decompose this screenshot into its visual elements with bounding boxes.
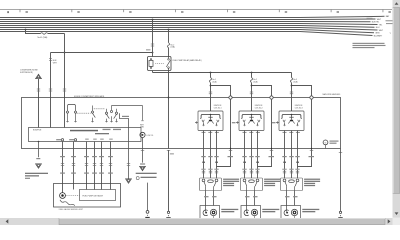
svg-text:(15A): (15A): [293, 80, 298, 83]
svg-text:COIL No.2: COIL No.2: [255, 107, 263, 109]
svg-text:No.41 (50A): No.41 (50A): [38, 36, 48, 39]
svg-text:COIL No.1: COIL No.1: [214, 107, 222, 109]
svg-text:BLK/YEL: BLK/YEL: [372, 22, 380, 24]
svg-text:SUPPRESSOR): SUPPRESSOR): [20, 72, 33, 74]
svg-text:BLU: BLU: [376, 27, 380, 29]
svg-text:G: G: [325, 143, 327, 145]
svg-text:FUEL PUMP UNIT ASSY: FUEL PUMP UNIT ASSY: [83, 194, 104, 197]
svg-text:YEL: YEL: [379, 24, 383, 26]
svg-text:(15A): (15A): [212, 80, 217, 83]
svg-text:(15A): (15A): [253, 80, 258, 83]
svg-text:MAIN WIRE HARNESS: MAIN WIRE HARNESS: [323, 93, 342, 96]
svg-text:*1: *1: [390, 33, 392, 35]
svg-text:FUEL GAUGE SENDING UNIT: FUEL GAUGE SENDING UNIT: [59, 208, 84, 211]
svg-text:ECM/PCM: ECM/PCM: [33, 129, 42, 131]
svg-text:GRN: GRN: [375, 33, 380, 35]
svg-text:LOW OIL: LOW OIL: [146, 135, 153, 137]
svg-text:(15A): (15A): [171, 46, 176, 49]
svg-text:ENGINE COMPARTMENT WIRE HARN.: ENGINE COMPARTMENT WIRE HARN.: [74, 95, 105, 98]
svg-text:FUEL PUMP RELAY (MAIN RELAY): FUEL PUMP RELAY (MAIN RELAY): [173, 59, 202, 62]
svg-text:BLU/WHT: BLU/WHT: [374, 35, 383, 37]
svg-text:COIL No.3: COIL No.3: [295, 107, 303, 109]
